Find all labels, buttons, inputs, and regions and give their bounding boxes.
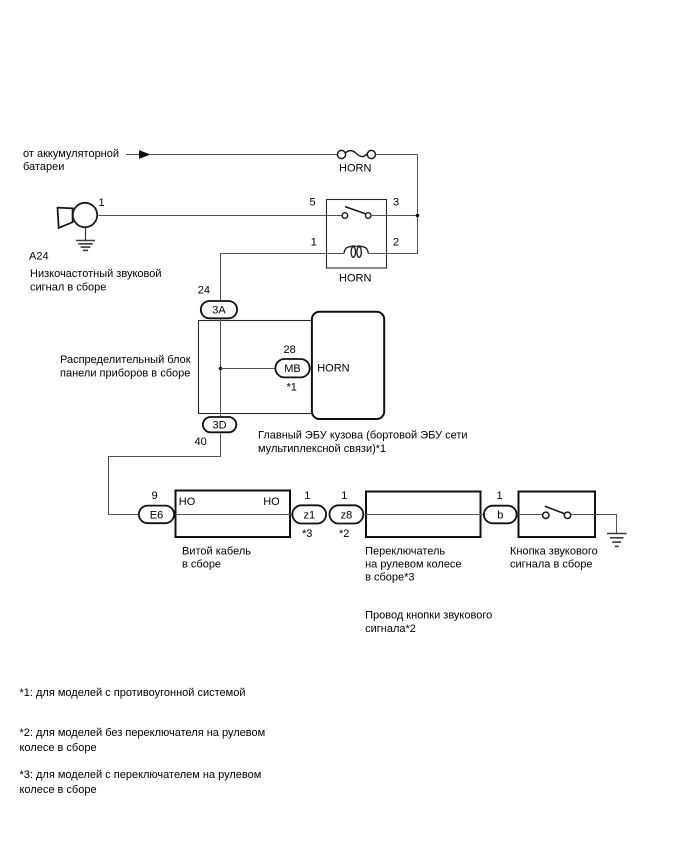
svg-text:от аккумуляторной: от аккумуляторной xyxy=(23,148,119,160)
spiral cable box xyxy=(176,491,291,538)
wire relay pin3 to vertical xyxy=(387,215,418,217)
svg-text:Переключатель: Переключатель xyxy=(365,545,445,557)
junction block caption xyxy=(60,354,191,379)
svg-text:MB: MB xyxy=(284,363,301,375)
node battery arrow xyxy=(139,150,151,159)
steering switch box xyxy=(366,492,481,538)
wire vertical corner to relay pins xyxy=(387,155,418,254)
svg-text:2: 2 xyxy=(393,237,399,249)
svg-text:z8: z8 xyxy=(341,509,353,521)
ground (horn button) xyxy=(607,534,627,547)
svg-text:HO: HO xyxy=(263,496,280,508)
svg-text:Витой кабель: Витой кабель xyxy=(182,545,251,557)
node battery feed label xyxy=(23,148,119,173)
svg-text:*3: *3 xyxy=(302,528,312,540)
relay switch blade xyxy=(345,207,365,214)
svg-text:1: 1 xyxy=(311,237,317,249)
connector E6 xyxy=(139,506,174,524)
svg-text:z1: z1 xyxy=(303,509,315,521)
connector 3A xyxy=(201,301,237,318)
svg-text:в сборе*3: в сборе*3 xyxy=(365,572,414,584)
connector 3D xyxy=(203,417,236,432)
footnote *3 xyxy=(20,769,262,796)
svg-text:HORN: HORN xyxy=(339,162,371,174)
svg-text:HO: HO xyxy=(179,496,196,508)
svg-text:40: 40 xyxy=(195,436,207,448)
svg-text:панели приборов в сборе: панели приборов в сборе xyxy=(60,367,190,379)
connector MB xyxy=(275,359,309,377)
svg-text:колесе в сборе: колесе в сборе xyxy=(20,784,97,796)
spiral cable caption xyxy=(182,545,251,570)
svg-text:3: 3 xyxy=(393,197,399,209)
wire through spiral cable xyxy=(176,514,292,516)
wire relay internal pin5 xyxy=(327,215,343,217)
ECU main body box xyxy=(312,312,384,419)
wire battery to fuse xyxy=(150,154,337,156)
junction block box xyxy=(199,321,313,414)
svg-text:мультиплексной связи)*1: мультиплексной связи)*1 xyxy=(258,443,386,455)
svg-text:3D: 3D xyxy=(212,419,226,431)
steering switch caption xyxy=(365,545,461,583)
horn button box xyxy=(519,492,596,538)
svg-text:*2: для моделей без переключат: *2: для моделей без переключателя на рул… xyxy=(20,727,266,739)
svg-text:24: 24 xyxy=(198,285,210,297)
svg-text:Распределительный блок: Распределительный блок xyxy=(60,354,191,366)
svg-text:28: 28 xyxy=(284,344,296,356)
svg-text:Низкочастотный звуковой: Низкочастотный звуковой xyxy=(30,268,161,280)
svg-text:на рулевом колесе: на рулевом колесе xyxy=(365,559,461,571)
wire horn to relay pin5 xyxy=(97,215,326,217)
relay switch contacts xyxy=(342,213,371,219)
wire horn to ground xyxy=(85,227,87,240)
wire vertical through junction block xyxy=(220,319,222,416)
svg-text:HORN: HORN xyxy=(317,362,349,374)
svg-text:5: 5 xyxy=(310,197,316,209)
horn A24 symbol xyxy=(58,203,98,228)
footnote *2 xyxy=(20,727,266,754)
wire relay internal pin3 xyxy=(371,215,387,217)
wire relay pin1 to junction block xyxy=(221,254,327,301)
svg-text:HORN: HORN xyxy=(339,273,371,285)
connector b xyxy=(484,506,517,524)
svg-text:9: 9 xyxy=(152,490,158,502)
svg-text:E6: E6 xyxy=(150,509,163,521)
svg-text:сигнала*2: сигнала*2 xyxy=(365,623,416,635)
svg-text:*1: *1 xyxy=(287,381,297,393)
svg-text:1: 1 xyxy=(99,197,105,209)
svg-text:в сборе: в сборе xyxy=(182,559,221,571)
svg-text:1: 1 xyxy=(341,490,347,502)
svg-text:сигнал в сборе: сигнал в сборе xyxy=(30,282,106,294)
node junction dot MB branch xyxy=(219,367,223,371)
node A24 caption xyxy=(30,268,161,293)
svg-text:1: 1 xyxy=(497,490,503,502)
svg-text:батареи: батареи xyxy=(23,161,64,173)
relay coil xyxy=(344,246,368,257)
wire battery arrow lead xyxy=(126,154,139,156)
svg-text:*3: для моделей с переключател: *3: для моделей с переключателем на руле… xyxy=(20,769,262,781)
ground (horn A24) xyxy=(76,241,95,251)
ECU caption xyxy=(258,430,468,455)
wire to MB xyxy=(221,368,276,370)
svg-text:*1: для моделей с противоугонн: *1: для моделей с противоугонной системо… xyxy=(20,687,246,699)
node junction dot at relay feed xyxy=(416,214,420,218)
svg-text:Провод кнопки звукового: Провод кнопки звукового xyxy=(365,610,492,622)
relay HORN box xyxy=(327,200,387,269)
wire fuse to corner xyxy=(376,154,418,156)
wire horn button to ground xyxy=(571,515,617,534)
svg-text:колесе в сборе: колесе в сборе xyxy=(20,742,97,754)
horn button contacts xyxy=(543,512,571,518)
horn button wire caption xyxy=(365,610,492,635)
svg-text:*2: *2 xyxy=(339,528,349,540)
wire into horn button xyxy=(518,514,543,516)
svg-text:A24: A24 xyxy=(29,251,49,263)
connector z1 xyxy=(292,505,326,523)
wire relay internal pin1 xyxy=(327,253,345,255)
connector z8 xyxy=(330,505,364,523)
horn button caption xyxy=(510,545,598,570)
wire relay coil to pin2 xyxy=(368,253,386,255)
svg-text:Кнопка звукового: Кнопка звукового xyxy=(510,545,598,557)
svg-text:b: b xyxy=(497,509,503,521)
wire through steering switch box xyxy=(364,514,483,516)
svg-text:3A: 3A xyxy=(212,305,226,317)
wire 3D to E6 xyxy=(109,434,221,515)
svg-text:сигнала в сборе: сигнала в сборе xyxy=(510,559,593,571)
svg-text:1: 1 xyxy=(304,490,310,502)
fuse HORN xyxy=(337,150,375,158)
svg-text:Главный ЭБУ кузова (бортовой Э: Главный ЭБУ кузова (бортовой ЭБУ сети xyxy=(258,430,468,442)
horn button blade xyxy=(545,506,566,514)
